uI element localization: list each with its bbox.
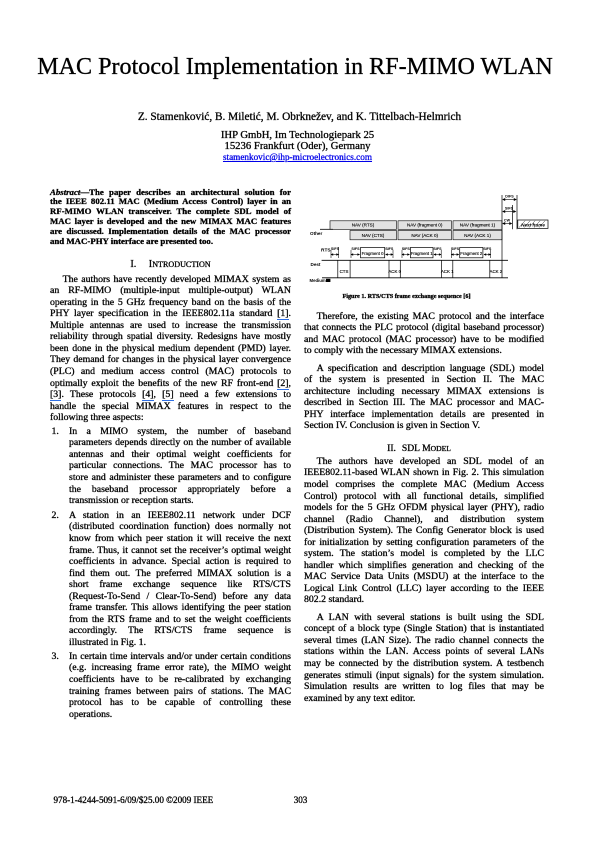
svg-text:SIFS: SIFS [402,247,411,251]
svg-text:Other: Other [310,231,322,236]
svg-text:Fragment 1: Fragment 1 [411,251,434,256]
svg-text:RTS: RTS [321,247,331,253]
svg-text:NAV (ACK 1): NAV (ACK 1) [464,233,491,238]
svg-text:SIFS: SIFS [331,247,340,251]
svg-text:SIFS: SIFS [451,247,460,251]
svg-text:NAV (RTS): NAV (RTS) [352,223,375,228]
svg-text:SIFS: SIFS [483,247,492,251]
svg-text:Fragment 2: Fragment 2 [460,251,483,256]
svg-text:DIFS: DIFS [505,195,514,199]
svg-text:CTS: CTS [340,269,349,274]
svg-text:NAV (fragment 0): NAV (fragment 0) [407,223,443,228]
svg-text:ACK 1: ACK 1 [441,269,454,274]
svg-text:ACK 2: ACK 2 [490,269,503,274]
svg-text:Next frame: Next frame [521,223,545,228]
svg-text:Medium: Medium [310,278,326,283]
svg-text:CW: CW [504,219,511,223]
svg-text:ACK 0: ACK 0 [388,269,401,274]
svg-text:NAV (ACK 0): NAV (ACK 0) [411,233,438,238]
svg-text:SIFS: SIFS [351,247,360,251]
svg-text:SIFS: SIFS [433,247,442,251]
svg-text:Fragment 0: Fragment 0 [362,251,385,256]
svg-text:SIFS: SIFS [505,207,514,211]
svg-text:Dest: Dest [311,262,321,267]
svg-text:NAV (fragment 1): NAV (fragment 1) [460,223,496,228]
svg-text:SIFS: SIFS [385,247,394,251]
svg-text:NAV (CTS): NAV (CTS) [362,233,385,238]
